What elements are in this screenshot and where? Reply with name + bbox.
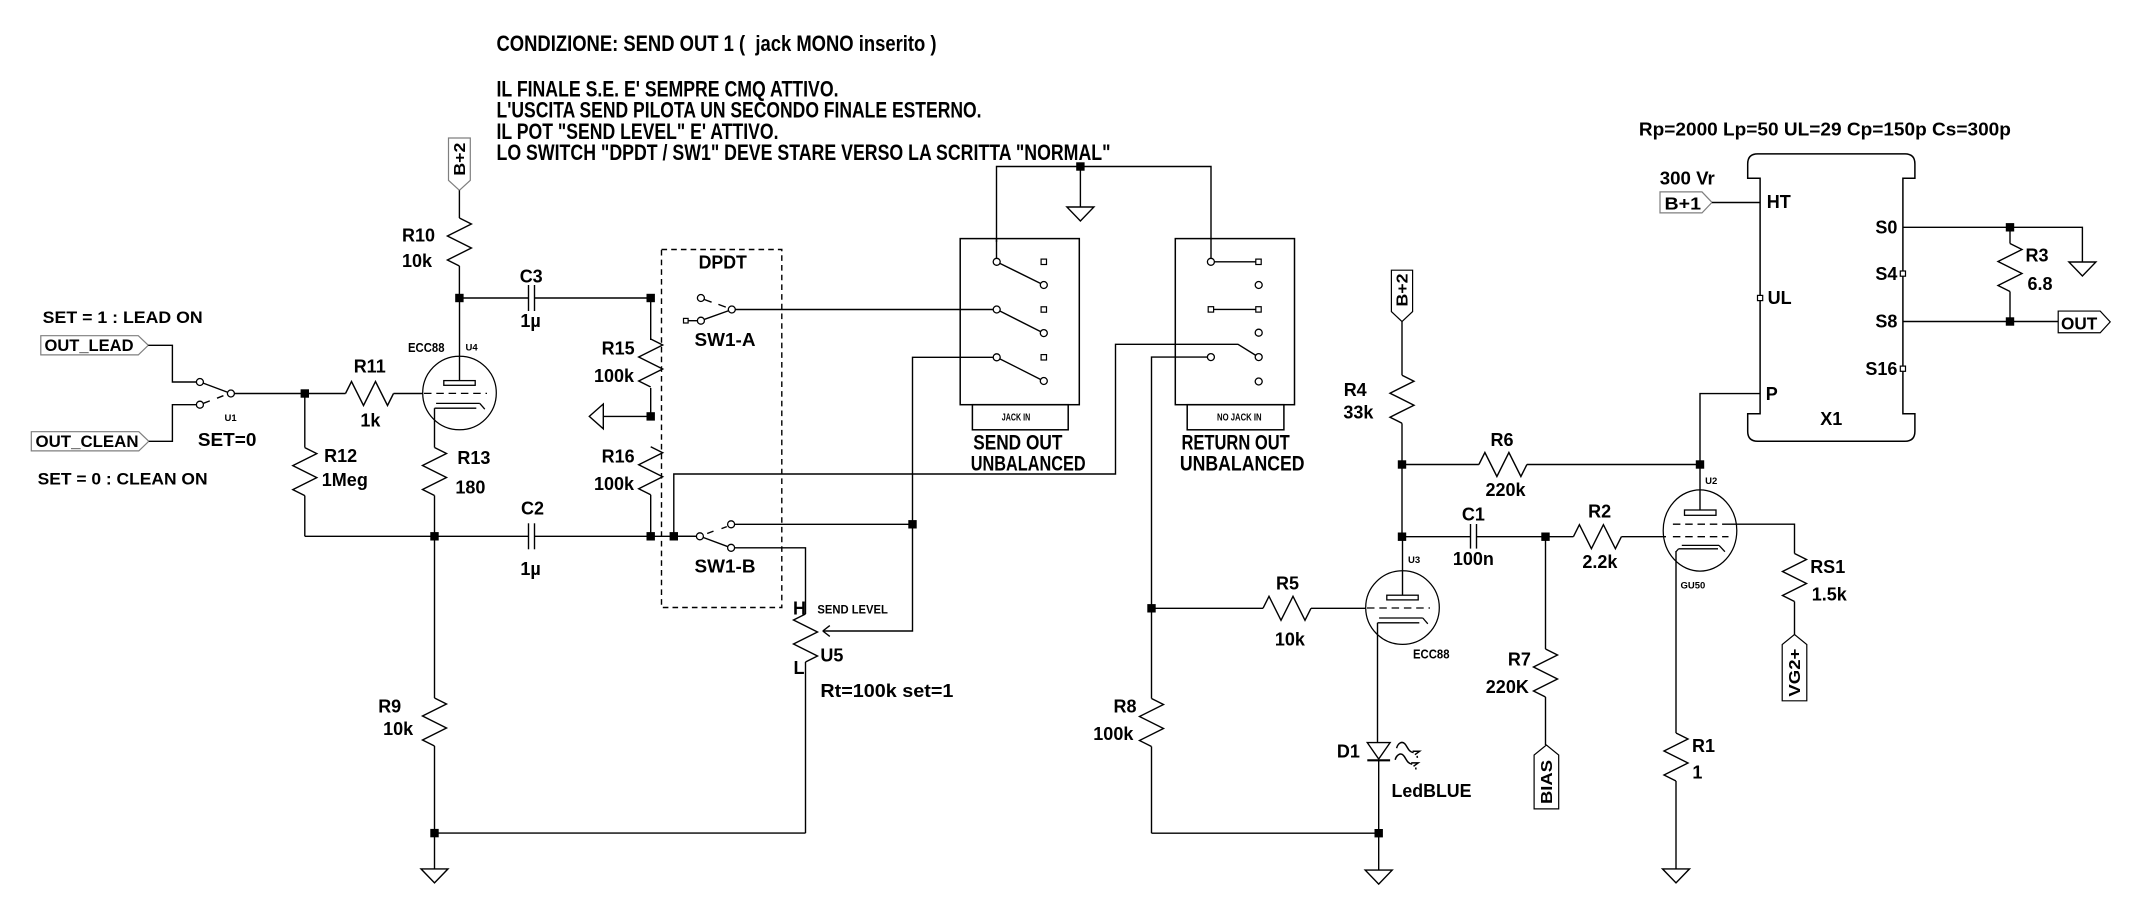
transformer X1 — [1748, 154, 1915, 441]
svg-text:6.8: 6.8 — [2028, 274, 2053, 294]
wire junction up to SEND OUT pole 3 — [913, 357, 994, 524]
node R15/R16 junction — [647, 412, 655, 420]
svg-text:UNBALANCED: UNBALANCED — [971, 452, 1086, 475]
flag B+2 (top left) — [449, 138, 471, 190]
svg-text:U1: U1 — [225, 413, 238, 424]
svg-text:R2: R2 — [1588, 501, 1611, 521]
jack RETURN OUT contacts — [1214, 261, 1256, 263]
node S0/R3 junction — [2006, 223, 2014, 231]
wire top middle — [997, 167, 1212, 259]
svg-text:B+2: B+2 — [452, 142, 469, 175]
svg-text:U3: U3 — [1408, 555, 1420, 566]
resistor R11 — [305, 393, 346, 395]
wire B+1 to HT — [1712, 202, 1760, 204]
wire R4 node down — [1401, 465, 1403, 537]
node C3/R15 junction — [647, 294, 655, 302]
svg-text:SET = 0 : CLEAN ON: SET = 0 : CLEAN ON — [38, 470, 208, 488]
node C2/R13 junction — [430, 532, 438, 540]
switch U1 — [203, 383, 228, 392]
node R10/C3 junction — [455, 294, 463, 302]
ground top middle — [1079, 167, 1081, 208]
ground S0 — [2069, 262, 2096, 276]
svg-text:2.2k: 2.2k — [1582, 552, 1618, 572]
svg-text:L: L — [794, 658, 805, 678]
svg-text:100k: 100k — [594, 366, 635, 386]
svg-text:LedBLUE: LedBLUE — [1392, 781, 1472, 801]
svg-text:RS1: RS1 — [1810, 557, 1845, 577]
svg-text:U2: U2 — [1705, 476, 1717, 487]
svg-text:10k: 10k — [402, 251, 433, 271]
svg-text:1k: 1k — [360, 411, 381, 431]
svg-text:SEND LEVEL: SEND LEVEL — [817, 602, 888, 616]
svg-text:1.5k: 1.5k — [1812, 584, 1848, 604]
svg-text:SET = 1 : LEAD ON: SET = 1 : LEAD ON — [43, 309, 203, 327]
svg-text:Rt=100k set=1: Rt=100k set=1 — [820, 681, 953, 701]
svg-text:B+1: B+1 — [1665, 193, 1702, 213]
pin S4 square — [1900, 271, 1905, 276]
svg-text:B+2: B+2 — [1395, 273, 1412, 306]
LED D1 — [1367, 743, 1390, 759]
capacitor C3 — [459, 297, 528, 299]
resistor R5 — [1152, 607, 1264, 609]
resistor R7 — [1545, 537, 1547, 649]
resistor R6 — [1402, 464, 1479, 466]
node D1 junction — [1375, 829, 1383, 837]
arrow marker at R15/R16 node — [603, 415, 650, 417]
svg-text:HT: HT — [1767, 192, 1791, 212]
node C1/R7 junction — [1541, 533, 1549, 541]
svg-text:S4: S4 — [1875, 264, 1897, 284]
svg-text:P: P — [1766, 384, 1778, 404]
ground bottom middle — [1378, 833, 1380, 870]
svg-text:R8: R8 — [1114, 697, 1137, 717]
svg-text:R13: R13 — [457, 448, 490, 468]
svg-text:1: 1 — [1692, 762, 1702, 782]
wire P to R6 node — [1700, 394, 1760, 465]
svg-text:OUT: OUT — [2061, 313, 2098, 333]
LED light arrows — [1395, 742, 1419, 769]
svg-text:U5: U5 — [820, 645, 843, 665]
svg-text:R12: R12 — [324, 446, 357, 466]
svg-text:R3: R3 — [2026, 246, 2049, 266]
wire OUT_CLEAN to switch — [149, 405, 197, 442]
node bottom left junction — [430, 829, 438, 837]
svg-text:U4: U4 — [466, 343, 479, 354]
svg-text:SET=0: SET=0 — [198, 430, 257, 450]
wire R12 bottom — [305, 535, 435, 537]
svg-text:NO JACK IN: NO JACK IN — [1217, 412, 1262, 424]
svg-text:ECC88: ECC88 — [1413, 647, 1450, 662]
jack RETURN OUT box — [1175, 239, 1294, 405]
triode U3 ECC88 — [1366, 571, 1440, 645]
svg-text:SW1-A: SW1-A — [695, 330, 756, 350]
resistor R12 — [304, 394, 306, 448]
flag OUT_LEAD — [41, 336, 149, 355]
svg-text:1Meg: 1Meg — [322, 470, 368, 490]
pot wiper arrow — [823, 524, 913, 631]
svg-text:Rp=2000 Lp=50 UL=29 Cp=150p Cs: Rp=2000 Lp=50 UL=29 Cp=150p Cs=300p — [1639, 120, 2011, 140]
resistor R1 — [1664, 733, 1688, 781]
resistor R2 — [1546, 536, 1574, 538]
capacitor C2 — [435, 535, 529, 537]
svg-text:ECC88: ECC88 — [408, 340, 445, 355]
capacitor C1 — [1402, 536, 1471, 538]
node R16 bottom junction — [647, 532, 655, 540]
svg-text:UNBALANCED: UNBALANCED — [1180, 452, 1305, 475]
svg-text:100n: 100n — [1453, 549, 1494, 569]
svg-text:R16: R16 — [602, 446, 635, 466]
jack SEND OUT contacts — [1000, 263, 1041, 283]
resistor R4 — [1401, 322, 1403, 376]
svg-text:1µ: 1µ — [520, 311, 540, 331]
resistor R3 — [2009, 227, 2011, 243]
potentiometer U5 SEND LEVEL — [794, 614, 818, 662]
svg-text:BIAS: BIAS — [1539, 760, 1556, 804]
svg-text:VG2+: VG2+ — [1787, 649, 1804, 697]
wire bottom middle — [1152, 832, 1379, 834]
svg-text:X1: X1 — [1820, 409, 1842, 429]
flag BIAS — [1534, 745, 1559, 809]
svg-text:300 Vr: 300 Vr — [1660, 169, 1715, 189]
svg-text:SW1-B: SW1-B — [695, 557, 756, 577]
node C1 junction left — [1398, 533, 1406, 541]
flag B+2 (above R4) — [1391, 270, 1412, 321]
svg-text:OUT_CLEAN: OUT_CLEAN — [36, 433, 139, 451]
jack SEND OUT box — [960, 239, 1079, 405]
svg-text:GU50: GU50 — [1681, 581, 1706, 592]
wire U1 to node A — [234, 393, 304, 395]
svg-text:UL: UL — [1768, 288, 1792, 308]
node S8/R3 junction — [2006, 317, 2014, 325]
svg-text:100k: 100k — [594, 474, 635, 494]
svg-text:H: H — [793, 599, 806, 619]
svg-text:D1: D1 — [1337, 742, 1360, 762]
resistor R15 — [650, 298, 652, 340]
pin S16 square — [1900, 366, 1905, 371]
svg-text:R6: R6 — [1491, 430, 1514, 450]
svg-text:180: 180 — [455, 478, 485, 498]
node R6/U2 junction — [1696, 460, 1704, 468]
svg-text:10k: 10k — [383, 719, 414, 739]
pin UL square — [1758, 295, 1763, 300]
wire SW1-B upper throw — [735, 523, 913, 525]
svg-text:CONDIZIONE: SEND OUT 1 ( jack: CONDIZIONE: SEND OUT 1 ( jack MONO inser… — [497, 31, 937, 56]
svg-text:LO SWITCH "DPDT / SW1" DEVE ST: LO SWITCH "DPDT / SW1" DEVE STARE VERSO … — [497, 140, 1111, 165]
svg-text:100k: 100k — [1093, 724, 1134, 744]
pentode U2 GU50 — [1663, 490, 1737, 571]
svg-text:33k: 33k — [1343, 403, 1374, 423]
flag OUT — [2058, 311, 2110, 333]
node wiper junction — [908, 520, 916, 528]
svg-text:R4: R4 — [1344, 380, 1367, 400]
svg-text:DPDT: DPDT — [699, 253, 747, 273]
svg-text:10k: 10k — [1275, 630, 1306, 650]
svg-text:C1: C1 — [1462, 504, 1485, 524]
flag B+1 — [1660, 192, 1712, 213]
svg-text:C3: C3 — [520, 266, 543, 286]
node SW1-B feed junction — [670, 532, 678, 540]
wire OUT_LEAD to switch — [148, 345, 196, 382]
svg-text:220K: 220K — [1486, 677, 1529, 697]
ground bottom right — [1663, 869, 1690, 883]
wire send return loop — [674, 344, 1256, 536]
svg-text:R7: R7 — [1508, 649, 1531, 669]
wire SW1-B lower throw to pot — [735, 548, 806, 614]
svg-text:1µ: 1µ — [520, 559, 540, 579]
svg-text:OUT_LEAD: OUT_LEAD — [45, 337, 134, 355]
svg-text:C2: C2 — [521, 498, 544, 518]
svg-text:220k: 220k — [1486, 480, 1527, 500]
svg-text:R15: R15 — [602, 339, 635, 359]
svg-text:R1: R1 — [1692, 736, 1715, 756]
wire S0 — [1903, 227, 2082, 262]
node R5/R8 junction — [1147, 604, 1155, 612]
svg-text:R10: R10 — [402, 226, 435, 246]
svg-text:RETURN OUT: RETURN OUT — [1181, 432, 1289, 455]
svg-text:SEND OUT: SEND OUT — [973, 432, 1062, 455]
node top middle junction — [1076, 162, 1084, 170]
resistor R10 — [458, 190, 460, 218]
node R4/R6 junction — [1398, 460, 1406, 468]
resistor RS1 — [1729, 524, 1795, 553]
svg-text:JACK IN: JACK IN — [1002, 412, 1030, 424]
resistor R8 — [1140, 699, 1164, 747]
wire bottom left — [435, 832, 806, 834]
svg-text:R5: R5 — [1276, 573, 1299, 593]
wire into SEND OUT jack — [996, 239, 998, 259]
DPDT dashed box — [662, 250, 782, 608]
svg-text:R11: R11 — [354, 357, 386, 377]
wire RETURN OUT row3 to R5 node — [1152, 357, 1208, 608]
resistor R13 — [423, 448, 447, 496]
svg-text:R9: R9 — [378, 697, 401, 717]
svg-text:S0: S0 — [1875, 218, 1897, 238]
switch SW1-A — [704, 311, 729, 320]
triode U4 ECC88 — [423, 356, 497, 430]
switch SW1-B — [674, 535, 697, 537]
node A junction — [301, 389, 309, 397]
flag OUT_CLEAN — [31, 432, 149, 451]
svg-text:S16: S16 — [1865, 359, 1897, 379]
resistor R9 — [434, 536, 436, 698]
wire SW1-A common to SEND OUT — [735, 309, 993, 311]
wire S8 — [1903, 321, 2058, 323]
ground bottom left — [434, 833, 436, 869]
svg-text:S8: S8 — [1875, 312, 1897, 332]
resistor R16 — [639, 447, 663, 495]
flag VG2+ — [1782, 635, 1807, 701]
